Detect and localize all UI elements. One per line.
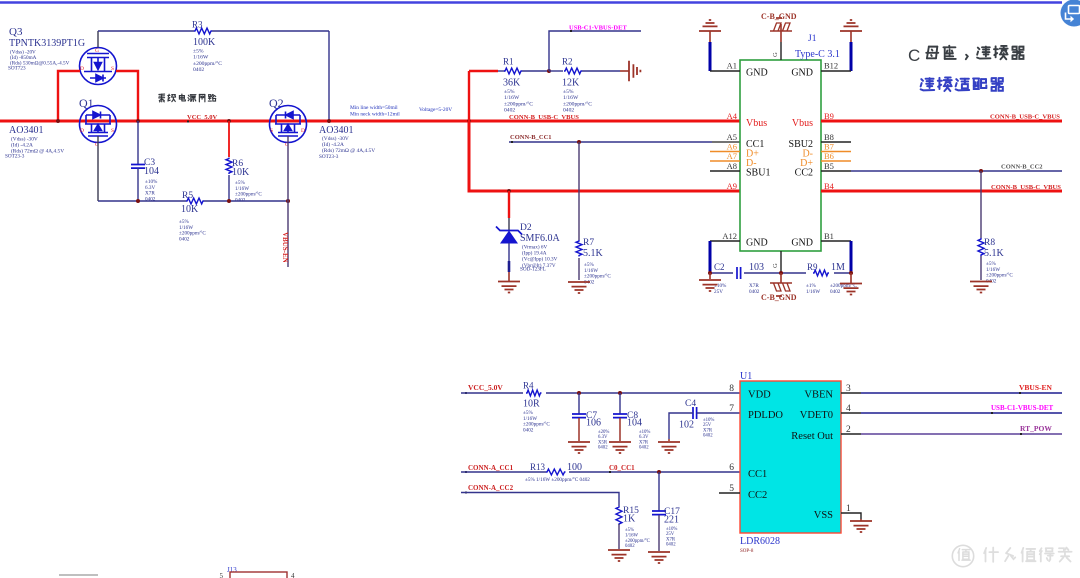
svg-text:CONN-B_USB-C_VBUS: CONN-B_USB-C_VBUS [991,184,1061,191]
svg-text:1/16W: 1/16W [625,533,639,538]
svg-text:25V: 25V [714,289,723,295]
chassis ground top-left of J1 [699,20,721,31]
svg-text:1/16W: 1/16W [504,95,520,101]
svg-text:VBUS-EN: VBUS-EN [1019,383,1053,392]
svg-text:A5: A5 [727,132,737,142]
svg-text:SOT23-3: SOT23-3 [5,154,25,160]
svg-text:(Vdss) -30V: (Vdss) -30V [11,136,38,143]
svg-text:D: D [80,66,84,72]
chassis ground top-right of J1 [840,20,862,31]
net CONN-B_CC1 wire [509,141,712,143]
svg-text:C-B_GND: C-B_GND [761,293,797,302]
capacitor C2 [737,267,741,279]
svg-text:0402: 0402 [193,67,204,73]
svg-text:J1: J1 [808,34,817,44]
svg-text:SBU1: SBU1 [746,168,770,179]
svg-text:±5%: ±5% [504,89,515,95]
svg-text:0402: 0402 [504,108,515,114]
svg-text:AO3401: AO3401 [9,125,43,136]
svg-text:Vbus: Vbus [792,118,813,129]
svg-text:0402: 0402 [598,446,608,451]
svg-text:10K: 10K [181,204,199,215]
ground below R15 [608,550,630,561]
svg-text:(Id) -4.2A: (Id) -4.2A [11,142,33,149]
wire VBUS det divider vertical [468,71,470,121]
svg-text:100K: 100K [193,37,216,48]
svg-text:10K: 10K [232,167,250,178]
transistor Q1 (AO3401 P-MOSFET) [80,106,117,143]
wire to USB-C1-VBUS-DET label [549,31,641,71]
wire R3 to VCC bus [328,31,330,120]
svg-text:B1: B1 [824,231,834,241]
svg-text:Q1: Q1 [79,96,94,110]
title 连接适配器 [921,77,1003,91]
svg-text:GND: GND [746,68,768,79]
svg-text:36K: 36K [503,78,521,89]
svg-text:A12: A12 [722,231,737,241]
svg-text:CONN-B_CC1: CONN-B_CC1 [510,134,552,141]
svg-text:103: 103 [749,262,764,273]
ground below C7 [568,442,590,453]
red VBUS lower bus [469,121,740,191]
pin B6 stub [821,160,851,162]
svg-text:USB-C1-VBUS-DET: USB-C1-VBUS-DET [569,25,627,32]
svg-text:SOD-123FL: SOD-123FL [520,267,546,273]
svg-text:±200ppm/°C: ±200ppm/°C [193,60,222,67]
A12 ground leg [709,241,712,273]
svg-text:GND: GND [746,238,768,249]
svg-text:Q2: Q2 [269,96,284,110]
resistor R15 [616,506,622,525]
Reset Out wire to RT_POW [841,433,861,435]
ground below VSS [850,521,872,532]
svg-text:0402: 0402 [179,236,190,242]
pin A7 stub [710,160,740,162]
svg-text:1/16W: 1/16W [806,289,820,295]
svg-text:J13: J13 [227,566,237,574]
svg-text:±5% 1/16W ±200ppm/°C 0402: ±5% 1/16W ±200ppm/°C 0402 [525,476,590,483]
wire CONN-B_CC2 [821,170,851,172]
transistor Q2 (AO3401 P-MOSFET) [270,106,307,143]
svg-text:GND: GND [791,68,813,79]
top blue border line [0,1,1062,4]
svg-text:CC1: CC1 [748,469,767,480]
svg-text:Voltage=5-20V: Voltage=5-20V [419,107,452,113]
port symbol C-B_GND bottom [780,273,782,283]
bottom wire row with C2 R9 [710,272,733,274]
svg-text:SOP-8: SOP-8 [740,549,754,554]
resistor R6 [228,121,230,157]
svg-text:D2: D2 [520,223,532,233]
svg-text:Reset Out: Reset Out [791,431,833,442]
svg-text:(Vrmax) 6V: (Vrmax) 6V [522,243,547,250]
pin 5 CC2 stub [719,492,740,494]
svg-text:5.1K: 5.1K [583,248,604,259]
svg-text:Type-C 3.1: Type-C 3.1 [795,49,840,60]
svg-text:S: S [270,128,273,134]
VSS to ground [841,513,861,519]
label 系统电源网路 [159,94,216,102]
svg-text:C-B_GND: C-B_GND [761,12,797,21]
B1 ground leg [850,241,853,273]
svg-text:D: D [80,128,84,134]
svg-text:CONN-B_USB-C_VBUS: CONN-B_USB-C_VBUS [990,114,1060,121]
svg-text:8: 8 [729,384,734,394]
svg-text:102: 102 [679,420,694,431]
svg-text:A1: A1 [727,61,737,71]
svg-text:1K: 1K [623,514,636,525]
svg-text:LDR6028: LDR6028 [740,536,780,547]
svg-text:R13: R13 [530,462,546,472]
svg-text:CC2: CC2 [748,490,767,501]
svg-text:1/16W: 1/16W [193,55,209,61]
svg-text:G: G [772,52,779,57]
svg-text:0402: 0402 [703,434,713,439]
pin A8 stub [710,170,740,172]
svg-text:A6: A6 [727,142,737,152]
svg-text:Min line width=50mil: Min line width=50mil [350,105,398,111]
svg-text:C: C [908,46,920,65]
svg-text:±200ppm/°C: ±200ppm/°C [625,539,650,544]
svg-text:A8: A8 [727,161,737,171]
svg-text:G: G [95,48,99,54]
svg-text:VBEN: VBEN [804,390,833,401]
svg-text:CONN-B_CC2: CONN-B_CC2 [1001,164,1043,171]
svg-text:C0_CC1: C0_CC1 [609,464,635,472]
svg-text:VDET0: VDET0 [800,410,833,421]
svg-text:0402: 0402 [666,543,676,548]
svg-text:±200ppm/°C: ±200ppm/°C [504,100,533,107]
junction R1/R2 [547,69,551,73]
pin B7 stub [821,151,851,153]
VBEN wire to VBUS-EN [841,392,861,394]
svg-text:VCC_5.0V: VCC_5.0V [187,114,217,121]
transistor Q3 (P-MOSFET) [80,48,117,85]
svg-text:104: 104 [627,418,642,429]
svg-text:0402: 0402 [523,427,534,433]
bottom of J1: G pin stem [780,251,782,273]
svg-text:SOT723: SOT723 [8,66,26,72]
stray wire bottom left [59,574,98,576]
svg-text:1/16W: 1/16W [563,95,579,101]
ground below A12 leg [709,273,711,279]
svg-text:Vbus: Vbus [746,118,767,129]
svg-text:S: S [111,128,114,134]
pin A12 stub [710,240,740,242]
svg-text:(Vc@Ipp) 10.3V: (Vc@Ipp) 10.3V [522,256,558,263]
svg-text:12K: 12K [562,78,580,89]
svg-text:Min neck width=12mil: Min neck width=12mil [350,111,400,117]
wire Q2 gate down / VBUS-EN net [287,136,289,267]
svg-text:CONN-A_CC1: CONN-A_CC1 [468,464,514,472]
svg-text:104: 104 [144,166,159,177]
svg-text:±5%: ±5% [563,89,574,95]
svg-text:S: S [111,66,114,72]
svg-text:6: 6 [729,463,734,473]
ground below D2 [498,282,520,293]
svg-text:VDD: VDD [748,390,771,401]
svg-text:A9: A9 [727,181,737,191]
resistor R8 [980,171,982,238]
svg-text:1M: 1M [831,262,845,273]
svg-text:CONN-A_CC2: CONN-A_CC2 [468,484,514,492]
red wire B4 VBUS right [821,190,1062,193]
red stub to R1 [469,70,498,72]
svg-text:C2: C2 [714,262,725,272]
TVS diode D2 [508,191,510,218]
svg-text:B7: B7 [824,142,834,152]
ground below R8 [970,282,992,293]
svg-text:B8: B8 [824,132,834,142]
svg-text:G: G [772,263,779,268]
svg-text:VSS: VSS [814,510,833,521]
svg-text:(Rds) 72mΩ @ 4A,4.5V: (Rds) 72mΩ @ 4A,4.5V [322,147,375,154]
svg-text:0402: 0402 [749,289,760,295]
svg-text:106: 106 [586,418,601,429]
svg-text:TPNTK3139PT1G: TPNTK3139PT1G [9,38,85,49]
svg-text:5.1K: 5.1K [984,248,1005,259]
ground below R7 [568,282,590,293]
svg-text:PDLDO: PDLDO [748,410,783,421]
pin B1 stub [821,240,851,242]
red wire B9 VBUS right [821,120,1062,123]
svg-text:C4: C4 [685,399,696,409]
capacitor C8 [619,393,621,414]
svg-text:R2: R2 [562,57,573,67]
svg-text:Q3: Q3 [9,26,23,38]
svg-text:7: 7 [729,404,734,414]
blue corner widget icon [1061,0,1080,27]
svg-text:A7: A7 [727,151,737,161]
svg-text:B5: B5 [824,161,834,171]
VCC 5V red power bus [0,120,740,123]
svg-text:SMF6.0A: SMF6.0A [520,233,561,244]
svg-text:RT_POW: RT_POW [1020,424,1052,433]
svg-text:R1: R1 [503,57,514,67]
wire Q3 gate to R3 net [97,31,99,48]
CC2 wire to R15 [461,493,619,507]
svg-text:VBUS-EN: VBUS-EN [281,232,289,263]
svg-text:0402: 0402 [639,446,649,451]
svg-text:AO3401: AO3401 [319,125,353,136]
svg-text:(Id) -4.2A: (Id) -4.2A [322,141,344,148]
IC U1 LDR6028 body [740,381,841,533]
svg-text:5: 5 [220,572,224,578]
junction dots on VCC bus [56,119,60,123]
pin B8 stub [821,141,851,143]
VDD wire [461,392,523,394]
red wire Q3 source loop [116,71,138,121]
svg-text:4: 4 [291,572,295,578]
svg-text:10R: 10R [523,399,540,410]
svg-text:GND: GND [791,238,813,249]
ground below B1 leg [850,273,852,283]
wire R3 net across top [98,30,194,32]
svg-text:0402: 0402 [625,544,635,549]
ground below C17 [648,552,670,563]
red wire Q3 drain loop [58,71,80,121]
svg-text:SOT23-3: SOT23-3 [319,154,339,160]
ground below C8 [609,442,631,453]
svg-text:D: D [301,128,305,134]
wire Q1 gate down [97,136,99,201]
svg-text:±5%: ±5% [625,528,634,533]
svg-text:221: 221 [664,515,679,526]
CC1 wire to U1 [461,471,546,473]
svg-text:(Vdss) -30V: (Vdss) -30V [322,135,349,142]
svg-text:USB-C1-VBUS-DET: USB-C1-VBUS-DET [991,404,1054,412]
svg-text:B6: B6 [824,151,834,161]
svg-text:U1: U1 [740,371,752,382]
ground below C4 [668,439,670,441]
svg-text:B12: B12 [824,61,838,71]
svg-text:R9: R9 [807,262,818,272]
gate drive wire row [98,200,186,202]
svg-text:0402: 0402 [830,289,841,295]
svg-text:(Ipp) 19.4A: (Ipp) 19.4A [522,250,547,257]
svg-text:CC2: CC2 [795,168,813,179]
svg-text:±5%: ±5% [193,49,204,55]
capacitor C17 [658,472,660,511]
svg-text:0402: 0402 [563,108,574,114]
VDET0 wire [841,412,861,414]
connector J1 body [740,60,821,251]
svg-text:±200ppm/°C: ±200ppm/°C [563,100,592,107]
svg-text:100: 100 [567,462,582,473]
capacitor C7 [578,393,580,414]
svg-text:R7: R7 [583,238,594,248]
ground after R2 (rotated) [629,61,640,82]
svg-text:VCC_5.0V: VCC_5.0V [468,383,503,392]
svg-text:A4: A4 [727,111,738,121]
resistor R7 [578,142,580,240]
pin A6 stub [710,151,740,153]
svg-text:CONN-B_USB-C_VBUS: CONN-B_USB-C_VBUS [509,114,579,121]
watermark 什么值得买 [952,545,973,566]
capacitor C3 [137,121,139,165]
svg-text:R8: R8 [984,238,995,248]
